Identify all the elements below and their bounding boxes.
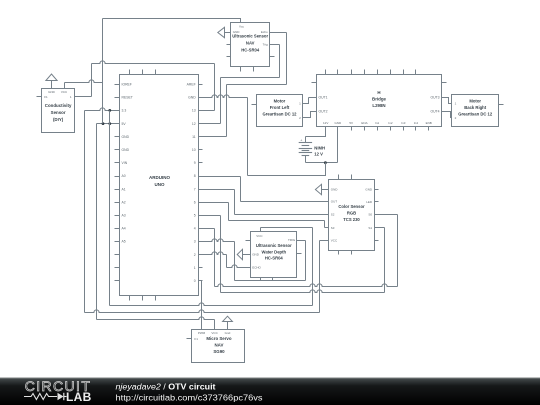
svg-text:IOREF: IOREF (122, 83, 132, 87)
svg-text:GND: GND (188, 96, 196, 100)
wire Arduino GND to battery - trunk (199, 95, 326, 176)
svg-text:VCC: VCC (256, 234, 263, 238)
CircuitLab logo wordmark LAB (66, 390, 92, 404)
svg-text:11: 11 (192, 135, 196, 139)
svg-text:Water Depth: Water Depth (262, 249, 287, 254)
svg-text:TCS 230: TCS 230 (343, 217, 360, 222)
svg-text:SG90: SG90 (213, 349, 225, 354)
wire H-bridge GND pin down (337, 127, 339, 163)
svg-text:LED: LED (366, 200, 373, 204)
svg-text:RESET: RESET (122, 96, 133, 100)
CircuitLab logo wordmark CIRCUIT (25, 378, 92, 394)
svg-text:5V: 5V (122, 122, 127, 126)
svg-text:VCC: VCC (61, 90, 68, 94)
svg-text:GND: GND (122, 148, 130, 152)
svg-text:VCC: VCC (331, 238, 338, 242)
wire top 5V rail to NAV Vcc (103, 19, 241, 23)
svg-text:Ultrasonic Sensor: Ultrasonic Sensor (232, 34, 268, 39)
svg-text:2: 2 (194, 253, 196, 257)
wire Arduino pin 8 to color sensor OUT (199, 177, 329, 202)
svg-text:NiMH: NiMH (314, 146, 325, 151)
svg-text:3.3: 3.3 (122, 109, 127, 113)
svg-text:RGB: RGB (347, 211, 356, 216)
svg-text:Motor: Motor (274, 99, 286, 104)
svg-text:A1: A1 (122, 187, 126, 191)
svg-text:OUT4: OUT4 (430, 109, 439, 113)
svg-text:NAV: NAV (246, 41, 255, 46)
svg-text:GND: GND (334, 121, 342, 125)
svg-text:OUT1: OUT1 (319, 96, 328, 100)
wire H-bridge OUT1 to motor front-left pin 1 (303, 98, 312, 104)
svg-text:In3: In3 (401, 121, 406, 125)
wire H-bridge OUT3 to motor back-right pin 1 (447, 98, 452, 104)
svg-text:+: + (300, 139, 302, 143)
wire battery - rail to GND trunk (248, 163, 326, 176)
wire Arduino pin 7 to color sensor S2 (199, 190, 329, 215)
svg-text:Micro Servo: Micro Servo (206, 336, 231, 341)
svg-text:(DIY): (DIY) (53, 117, 64, 122)
wire battery - rail (306, 162, 338, 164)
wire 5V rail R6 to servo VCC (97, 317, 215, 330)
svg-text:Motor: Motor (469, 99, 481, 104)
svg-text:PWM: PWM (198, 331, 206, 335)
svg-text:Bridge: Bridge (372, 97, 386, 102)
svg-text:12V: 12V (323, 121, 328, 125)
wire H-bridge OUT4 to motor back-right pin 2 (447, 112, 452, 118)
junction 5V at x103 (102, 122, 105, 125)
svg-text:Vcc: Vcc (239, 24, 245, 28)
svg-text:ECHO: ECHO (252, 266, 261, 270)
svg-text:In1: In1 (375, 121, 380, 125)
svg-text:OUT3: OUT3 (430, 96, 439, 100)
svg-text:GND: GND (365, 187, 373, 191)
ground flag at water-depth sensor GND (237, 249, 250, 259)
footer black bar (0, 378, 540, 405)
wire conductivity VCC to 5V riser (65, 80, 103, 89)
wire 3.3 trunk left (84, 111, 86, 313)
svg-text:VCC: VCC (211, 331, 218, 335)
wire Arduino 5V pin (97, 123, 120, 125)
wire Arduino pin 11 to NAV Echo (199, 33, 287, 137)
svg-text:F1: F1 (44, 95, 48, 99)
svg-text:6: 6 (194, 200, 196, 204)
svg-text:H: H (377, 90, 380, 95)
svg-text:Sensor: Sensor (51, 110, 66, 115)
wire Arduino 3.3 pin (85, 108, 120, 111)
wire Arduino pin 4 to color sensor S0 (199, 215, 398, 287)
svg-text:NAV: NAV (215, 343, 224, 348)
svg-text:5: 5 (194, 214, 196, 218)
svg-text:5V: 5V (349, 121, 353, 125)
svg-text:VIN: VIN (122, 161, 128, 165)
svg-text:8: 8 (194, 174, 196, 178)
wire H-bridge OUT2 to motor front-left pin 2 (303, 112, 312, 118)
junction 5V at x109.8 (108, 122, 111, 125)
svg-text:F1: F1 (194, 337, 198, 341)
motor M1 Front Left Greartisan DC 12 (252, 95, 303, 127)
svg-text:In4: In4 (414, 121, 419, 125)
ground flag at servo Gnd (223, 316, 233, 329)
ultrasonic sensor NAV HC-SR04 (227, 23, 275, 72)
svg-text:http://circuitlab.com/c373766p: http://circuitlab.com/c373766pc76vs (116, 392, 263, 402)
battery V1 NiMH 12 V (299, 137, 325, 163)
svg-text:0: 0 (194, 279, 196, 283)
svg-text:AREF: AREF (187, 83, 196, 87)
svg-text:GND: GND (48, 90, 56, 94)
svg-text:GND: GND (331, 187, 339, 191)
wire 5V riser to top rail (102, 19, 104, 124)
op-amp U1 Arduino UNO microcontroller (115, 70, 203, 301)
svg-text:UNO: UNO (155, 182, 165, 187)
junction 3.3 at x109.8 (108, 109, 111, 112)
svg-text:Ultrasonic Sensor: Ultrasonic Sensor (256, 243, 292, 248)
svg-text:S1: S1 (368, 226, 372, 230)
svg-text:GND: GND (252, 252, 260, 256)
svg-text:10: 10 (192, 148, 196, 152)
credit line: njeyadave2 / OTV circuit (116, 381, 216, 391)
wire Arduino pin 6 to color sensor S3 (199, 203, 329, 228)
svg-text:S3: S3 (331, 226, 335, 230)
svg-text:Back Right: Back Right (464, 105, 486, 110)
H-bridge L298N motor driver (312, 70, 447, 131)
wire Arduino pin 2 to water-depth ECHO (199, 252, 251, 268)
svg-text:A0: A0 (122, 174, 126, 178)
svg-text:HC-SR04: HC-SR04 (265, 256, 284, 261)
svg-text:ENA: ENA (361, 121, 367, 125)
svg-text:12: 12 (192, 122, 196, 126)
svg-text:Color Sensor: Color Sensor (338, 204, 365, 209)
conductivity sensor (DIY) (37, 89, 75, 133)
wire 5V trunk down (96, 124, 98, 320)
svg-text:Front Left: Front Left (270, 105, 290, 110)
wire Arduino pin 5 to color sensor S1 (199, 216, 385, 293)
ultrasonic sensor Water Depth HC-SR04 (246, 232, 302, 281)
svg-text:13: 13 (192, 109, 196, 113)
svg-text:In2: In2 (388, 121, 393, 125)
svg-text:A3: A3 (122, 214, 126, 218)
svg-text:A4: A4 (122, 227, 126, 231)
svg-text:LAB: LAB (66, 390, 92, 404)
svg-text:7: 7 (194, 187, 196, 191)
junction battery - rail (324, 161, 327, 164)
svg-text:Trig: Trig (263, 43, 268, 47)
svg-text:Greartisan DC 12: Greartisan DC 12 (263, 111, 298, 116)
svg-text:1: 1 (194, 266, 196, 270)
URL line (116, 392, 263, 402)
svg-text:Greartisan DC 12: Greartisan DC 12 (458, 111, 493, 116)
wire 3.3 branch trunk (109, 111, 111, 306)
svg-text:12 V: 12 V (314, 151, 323, 156)
color sensor RGB TCS 230 (329, 175, 379, 255)
wire 3.3 rail R5 to color sensor VCC (85, 241, 329, 313)
svg-text:3: 3 (194, 240, 196, 244)
motor M2 Back Right Greartisan DC 12 (452, 95, 504, 127)
wire Arduino pin 3 to water-depth TRIG (199, 239, 306, 281)
CircuitLab logo resistor zigzag and diode (24, 393, 67, 400)
svg-text:TRIG: TRIG (288, 238, 296, 242)
svg-text:HC-SR04: HC-SR04 (241, 48, 260, 53)
servo motor Micro Servo NAV SG90 (187, 330, 245, 363)
ground flag at NAV sensor GND (218, 27, 231, 37)
svg-text:OUT: OUT (331, 200, 338, 204)
ground flag at conductivity sensor GND (46, 74, 57, 89)
wire Arduino pin 0 to servo PWM (199, 281, 202, 330)
svg-text:9: 9 (194, 161, 196, 165)
svg-text:A2: A2 (122, 200, 126, 204)
svg-text:S2: S2 (331, 213, 335, 217)
wire conductivity pin 1 to Arduino pin 13 (75, 61, 215, 111)
ground flag at color sensor GND (315, 184, 328, 194)
svg-text:ENB: ENB (426, 121, 432, 125)
wire H-bridge 12V pin to battery + (306, 127, 326, 137)
svg-text:ARDUINO: ARDUINO (149, 175, 170, 180)
svg-text:A5: A5 (122, 240, 126, 244)
svg-text:OUT2: OUT2 (319, 109, 328, 113)
svg-text:Gnd: Gnd (225, 331, 231, 335)
svg-text:S0: S0 (368, 212, 372, 216)
svg-text:4: 4 (194, 227, 196, 231)
svg-text:GND: GND (122, 135, 130, 139)
svg-text:Conductivity: Conductivity (45, 103, 72, 108)
wire rail R4 to water-depth VCC (110, 228, 313, 306)
svg-text:njeyadave2 / OTV circuit: njeyadave2 / OTV circuit (116, 381, 216, 391)
svg-text:L298N: L298N (372, 103, 385, 108)
wire Arduino pin 12 to NAV Trig (199, 45, 280, 124)
